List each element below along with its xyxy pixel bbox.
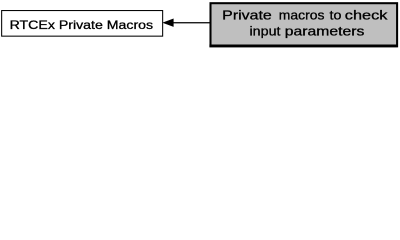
svg-text:macros: macros [279,8,325,23]
svg-text:input: input [250,24,281,39]
svg-text:parameters: parameters [285,24,365,39]
node: Private macros to check input parameters (current, grey) [209,3,397,46]
bottom border emphasis [209,45,397,48]
svg-text:check: check [345,8,388,23]
svg-text:RTCEx Private Macros: RTCEx Private Macros [10,18,154,32]
arrowhead [163,19,173,27]
edge arrow [163,19,210,27]
svg-text:to: to [330,8,342,23]
node: RTCEx Private Macros box [2,11,163,37]
svg-text:Private: Private [222,8,272,23]
wire [173,22,211,24]
